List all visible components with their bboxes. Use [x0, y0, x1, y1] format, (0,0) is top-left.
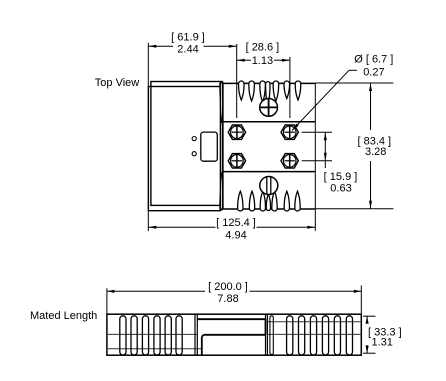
housing pin hole upper	[192, 137, 196, 141]
extension line x=289.9	[289, 57, 291, 118]
svg-text:[ 28.6 ]: [ 28.6 ]	[246, 41, 280, 53]
label Mated Length	[30, 310, 97, 322]
phillips screw top	[260, 99, 278, 117]
strain relief fingers bottom band	[220, 173, 300, 211]
slotted screw bottom	[260, 177, 278, 195]
hex bolt lower-left	[228, 154, 245, 168]
clamp block left edge	[222, 83, 224, 209]
boot edge stadium right	[270, 316, 273, 355]
extension line left x=148.3	[147, 43, 149, 231]
mated mid line left lower	[107, 348, 202, 350]
boot seam right pair	[266, 314, 268, 355]
svg-text:0.27: 0.27	[363, 66, 384, 78]
svg-text:1.13: 1.13	[252, 55, 273, 67]
svg-text:1.31: 1.31	[372, 336, 393, 348]
mated interface Z seam	[197, 319, 265, 355]
hex bolt upper-right	[281, 125, 298, 139]
clamp block divider upper	[223, 121, 315, 123]
boot coils left	[120, 316, 182, 355]
housing body (front outline)	[151, 82, 223, 206]
dimension 125.4	[148, 217, 315, 241]
dimension 33.3	[363, 316, 402, 353]
svg-text:4.94: 4.94	[225, 229, 246, 241]
svg-text:[ 15.9 ]: [ 15.9 ]	[324, 171, 358, 183]
leader diameter 6.7	[292, 53, 393, 130]
svg-text:7.88: 7.88	[217, 293, 238, 305]
svg-text:2.44: 2.44	[177, 43, 198, 55]
clamp block divider lower	[223, 171, 315, 173]
mated mid line right upper	[267, 321, 361, 323]
svg-text:3.28: 3.28	[365, 146, 386, 158]
strain relief fingers top band	[220, 81, 301, 123]
svg-text:Mated Length: Mated Length	[30, 310, 97, 322]
extension line right x=315.2	[314, 83, 316, 231]
dimension 200.0	[107, 281, 361, 314]
svg-text:Top View: Top View	[95, 77, 139, 89]
extension line x=236.7	[236, 44, 238, 118]
label Top View	[95, 77, 139, 89]
mated mid line left upper	[107, 333, 197, 335]
dimension 61.9	[148, 32, 236, 56]
svg-text:[ 125.4 ]: [ 125.4 ]	[216, 217, 256, 229]
hex bolt lower-right	[281, 154, 298, 168]
dimension 28.6	[237, 41, 290, 67]
svg-text:[ 200.0 ]: [ 200.0 ]	[208, 281, 248, 293]
housing pin hole lower	[192, 152, 196, 156]
boot seam left pair	[195, 314, 197, 355]
hex bolt upper-left	[228, 125, 245, 139]
dimension 83.4	[315, 83, 393, 209]
dimension 15.9	[302, 132, 358, 194]
housing window rounded rect	[201, 132, 218, 161]
clamp block top edge	[223, 82, 315, 84]
housing body (back outline)	[148, 87, 220, 211]
clamp block bottom edge	[223, 208, 315, 210]
mated mid line right lower	[267, 333, 361, 335]
svg-text:0.63: 0.63	[330, 182, 351, 194]
mated body outline	[107, 314, 361, 355]
svg-text:[ 61.9 ]: [ 61.9 ]	[171, 32, 205, 44]
boot coils right	[287, 316, 353, 355]
svg-text:Ø [ 6.7 ]: Ø [ 6.7 ]	[354, 53, 393, 65]
